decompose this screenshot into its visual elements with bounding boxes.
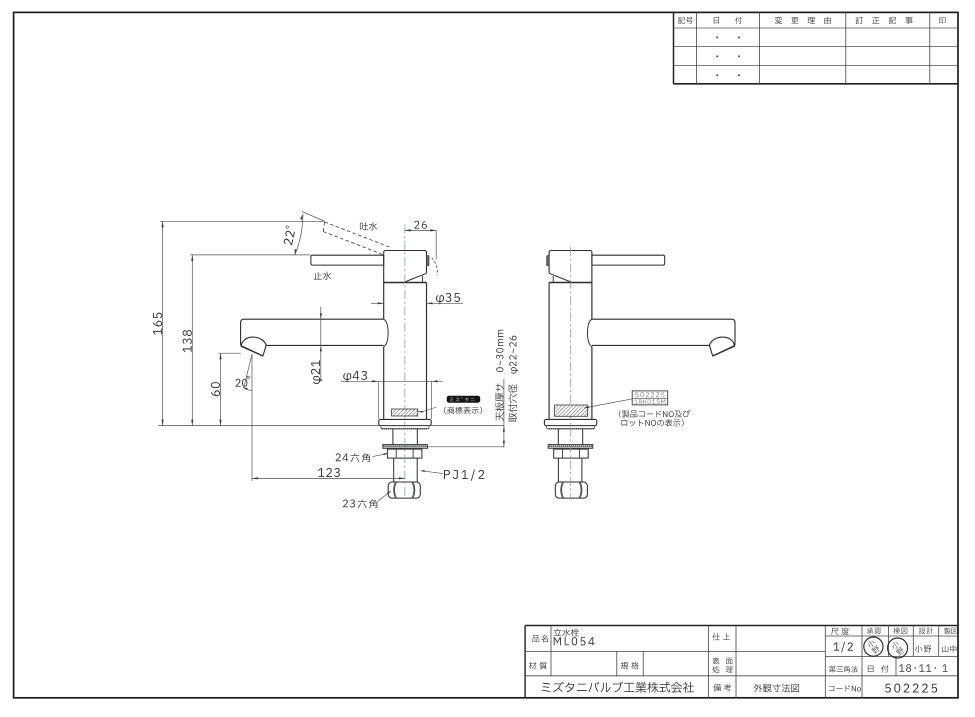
revision table grid — [674, 12, 959, 83]
product code/lot number box 502225 18K015M — [632, 391, 668, 405]
dashed lever swing arc at head — [432, 258, 438, 276]
date 18・11・1 — [899, 664, 947, 672]
dimension 165 — [153, 221, 164, 425]
title 承認 label — [867, 628, 881, 634]
title 日付 label — [868, 665, 889, 672]
counter baseline — [158, 425, 504, 427]
dimension φ35 (body diameter) — [371, 293, 463, 305]
dimension 138 — [183, 255, 194, 426]
designer 小野 — [915, 645, 931, 652]
rotated note 天板厚サ 0~30mm — [495, 330, 504, 421]
code number 502225 — [885, 684, 937, 693]
label 24六角 with leader — [336, 453, 389, 462]
scale 1/2 — [834, 642, 853, 652]
dimension 60 — [211, 353, 222, 425]
left view centerline — [404, 225, 406, 499]
title block grid — [525, 626, 958, 699]
check stamp 小野 (検図) — [888, 638, 908, 658]
title コードNo label — [829, 685, 861, 691]
product name 立水栓 — [554, 629, 579, 637]
revision header 変更理由 — [775, 17, 831, 24]
label (商標表示) — [444, 407, 482, 414]
label 23六角 with leader — [343, 491, 391, 509]
extension line at lever top (138 level) — [190, 254, 310, 256]
title 表面処理 label — [713, 657, 733, 664]
title 材質 label — [529, 662, 547, 669]
dashed raised lever (吐水 position) — [323, 222, 391, 255]
dimension φ21 (spout diameter) — [311, 307, 322, 384]
title 第三角法 label — [829, 666, 858, 673]
revision header 印 — [939, 17, 945, 24]
right view centerline — [570, 247, 572, 499]
title 設計 label — [919, 628, 933, 634]
title 規格 label — [621, 662, 639, 669]
title 品名 label — [532, 635, 548, 642]
rotated note 取付穴径 φ22~26 — [508, 336, 518, 422]
product code ML054 — [554, 637, 595, 645]
approval stamp 小野 (承認) — [864, 637, 883, 656]
title 仕上 label — [712, 633, 730, 640]
dimension 26 (head width) — [405, 221, 436, 260]
extension line at raised lever top (165 level) — [160, 220, 324, 222]
product code hatched plate on right view body — [555, 399, 632, 416]
faucet left view (front) — [241, 251, 432, 499]
title 備考 label — [714, 684, 732, 691]
title 検図 label — [893, 628, 907, 634]
revision header 記号 — [678, 17, 693, 24]
angle 22° lever swing dimension arc — [282, 214, 303, 255]
washer-top extension line — [428, 446, 504, 448]
revision date placeholder dots — [716, 37, 739, 77]
revision header 日付 — [714, 17, 719, 23]
angle 20° of outlet face — [236, 354, 252, 390]
trademark black logo tag — [447, 396, 481, 403]
faucet right view (mirrored side) — [544, 251, 735, 499]
note ロットNOの表示) — [622, 419, 684, 426]
label PJ1/2 with leader — [420, 470, 485, 481]
drafter 山中 — [942, 645, 956, 652]
raised lever top edge extension line — [302, 211, 325, 221]
label 止水 — [314, 272, 332, 280]
extension line at spout outlet (60 level) — [218, 352, 241, 354]
note (製品コードNO及び — [619, 410, 690, 418]
title 尺度 label — [831, 628, 849, 635]
dimension 123 with tip extension line — [252, 354, 405, 481]
revision header 訂正記事 — [856, 17, 913, 24]
remark 外観寸法図 — [754, 684, 799, 693]
trademark hatched plate on left view body — [392, 407, 437, 416]
dimension φ43 (flange diameter) — [341, 371, 443, 419]
counter thickness dimension 0-30 — [503, 379, 505, 448]
company name ミズタニバルブ工業株式会社 — [542, 681, 694, 692]
title 製図 label — [944, 628, 957, 634]
label 吐水 — [360, 222, 377, 230]
